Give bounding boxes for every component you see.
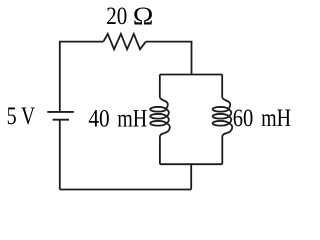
wire: battery bottom lead [59, 120, 61, 190]
inductor L2 loop 2 [213, 114, 229, 119]
wire: left vertical + top-left segment to resistor [60, 42, 104, 111]
inductor L1 bridge 2-3 [166, 116, 169, 123]
inductor L1 loop 3 [150, 121, 166, 126]
wire: left inductor bottom lead [159, 137, 161, 164]
svg-text:20: 20 [106, 1, 127, 29]
svg-text:V: V [21, 101, 35, 129]
wire: right inductor bottom lead [221, 137, 223, 164]
inductor L2 loop 1 [213, 107, 229, 112]
wire: top bar of parallel inductors (node A) [160, 74, 222, 76]
svg-text:5: 5 [7, 102, 17, 130]
svg-text:Ω: Ω [133, 2, 153, 30]
svg-text:40: 40 [88, 105, 109, 133]
svg-text:60: 60 [233, 104, 253, 131]
wire: bottom rail [60, 189, 191, 191]
wire: resistor to top-right corner, down to node A [146, 42, 192, 75]
wire: left inductor top lead [159, 75, 161, 98]
resistor R1 20 ohm zigzag [103, 34, 145, 49]
inductor L1 loop 2 [150, 114, 166, 119]
inductor L2 bridge 2-3 [228, 116, 231, 123]
inductor L1 bridge 1-2 [166, 109, 169, 116]
wire: right inductor top lead [221, 75, 223, 98]
inductor L2 bridge 1-2 [228, 109, 231, 116]
battery V1 bottom plate (short) [53, 119, 69, 121]
inductor L2 loop 3 [213, 121, 229, 126]
wire: bottom bar of parallel inductors (node B) [160, 163, 222, 165]
inductor L2 exit arc [222, 123, 232, 137]
inductor L2 60 mH: entry arc [222, 97, 230, 109]
inductor L1 40 mH: entry arc [160, 97, 168, 109]
inductor L1 exit arc [160, 123, 170, 137]
inductor L1 loop 1 [150, 107, 166, 112]
svg-text:mH: mH [261, 104, 291, 132]
battery V1 top plate (long) [47, 111, 74, 113]
wire: node B drop to bottom rail [190, 164, 192, 189]
svg-text:mH: mH [117, 104, 147, 132]
